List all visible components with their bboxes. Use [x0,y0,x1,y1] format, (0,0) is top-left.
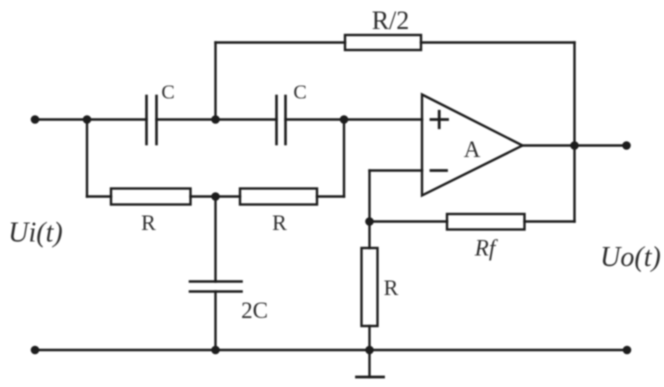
svg-text:R: R [272,210,287,235]
svg-text:Rf: Rf [474,236,499,261]
svg-text:R/2: R/2 [372,6,410,35]
svg-text:R: R [141,210,156,235]
svg-text:C: C [161,82,174,104]
svg-text:C: C [293,82,306,104]
svg-text:Ui(t): Ui(t) [8,218,62,249]
svg-text:A: A [464,137,481,162]
svg-text:R: R [384,275,399,300]
svg-text:Uo(t): Uo(t) [600,242,661,273]
svg-text:2C: 2C [241,298,268,323]
